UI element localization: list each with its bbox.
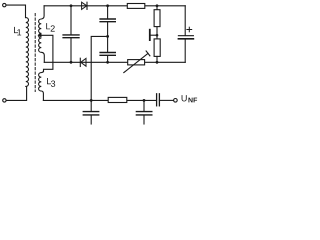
capacitor C1 vertical leads <box>70 6 72 35</box>
junction dot <box>106 61 109 64</box>
capacitor C1 plates <box>63 34 79 36</box>
capacitor C8 plates <box>136 111 151 113</box>
resistor R2 body <box>154 10 160 27</box>
junction dot <box>156 34 159 37</box>
junction dot <box>106 4 109 7</box>
base wire <box>151 34 157 36</box>
junction dot <box>70 61 73 64</box>
trimmer resistor R4 body <box>128 60 145 65</box>
label L3 subscript 3 <box>51 81 55 87</box>
trimmer R4 tip bar <box>146 51 150 56</box>
label L3 letter L <box>47 78 51 84</box>
resistor R1 (top rail) <box>127 4 145 9</box>
junction dot <box>70 4 73 7</box>
inductor L3 <box>39 71 44 100</box>
transformer core <box>34 14 36 92</box>
capacitor C8 lead <box>143 115 145 124</box>
junction dot <box>156 61 159 64</box>
right rail wire <box>184 6 186 36</box>
label UNF subscript F <box>194 98 198 103</box>
junction dot <box>143 99 146 102</box>
capacitor C4 leads <box>107 6 109 19</box>
electrolytic capacitor plates <box>178 35 193 37</box>
capacitor C7 lead <box>90 115 92 124</box>
capacitor C4 plates <box>100 18 115 20</box>
capacitor C8 lead <box>143 100 145 111</box>
inductor L1 <box>26 18 29 87</box>
resistor R3 lead <box>156 56 158 62</box>
label UNF subscript N <box>188 98 192 103</box>
resistor R5 body <box>108 97 127 102</box>
output capacitor C9 plates <box>156 94 158 106</box>
junction dot <box>156 4 159 7</box>
wire to output terminal <box>159 99 173 101</box>
wire node to bottom rail <box>91 36 107 100</box>
tap arrow on L2 <box>38 34 41 37</box>
junction dot <box>106 35 109 38</box>
output terminal <box>174 99 178 103</box>
diode D1 (top rail, pointing right) <box>82 2 87 9</box>
label L2 subscript 2 <box>51 25 55 31</box>
inductor L2 <box>39 6 45 63</box>
capacitor C5 plates <box>100 52 115 54</box>
diode D2 cathode bar <box>79 58 81 66</box>
label L1 subscript 1 <box>17 29 21 35</box>
capacitor C7 plates <box>83 111 98 113</box>
trimmer R4 arrow <box>124 53 148 72</box>
label L1 letter L <box>14 27 18 33</box>
input terminal bottom <box>3 99 6 102</box>
plus sign <box>187 27 192 32</box>
label UNF letter U <box>182 95 187 101</box>
label L2 letter L <box>46 23 50 29</box>
junction dot <box>90 99 93 102</box>
diode D1 cathode bar <box>86 2 88 9</box>
mid rail wire <box>44 61 185 63</box>
bottom rail wire <box>43 99 155 101</box>
wire tap to L3 <box>41 35 53 71</box>
transistor base bar <box>149 30 151 40</box>
resistor R3 body <box>154 39 160 57</box>
input terminal top <box>3 3 6 6</box>
top rail wire <box>44 5 185 7</box>
wire <box>6 5 25 18</box>
capacitor C5 leads <box>107 36 109 52</box>
resistor R2 leads <box>156 6 158 10</box>
diode D2 (mid rail, pointing left) <box>81 58 86 66</box>
wire <box>6 87 26 101</box>
capacitor C7 lead <box>90 100 92 111</box>
